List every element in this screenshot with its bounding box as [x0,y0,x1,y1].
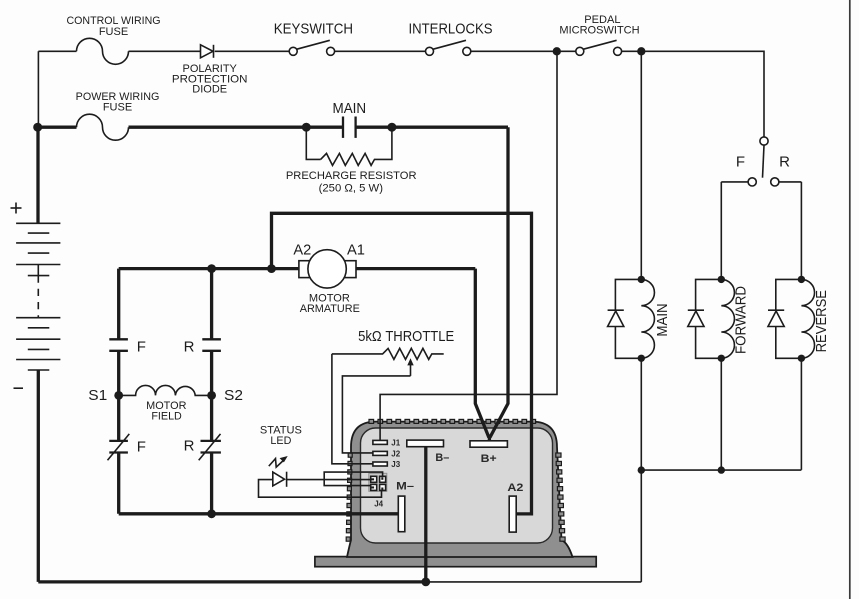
wire MAIN coil bottom drop [640,358,642,470]
diode D3 FORWARD coil suppression [688,279,722,358]
wire REVERSE coil drops [800,182,802,470]
label B+ terminal [481,453,497,465]
label A2 terminal [507,482,523,494]
controller terminal B+ bar [470,441,507,447]
junction REVERSE coil bottom node [798,355,805,362]
label B- terminal [435,452,449,464]
svg-text:F: F [736,153,745,170]
wire armature A2 loop to controller A2 [272,213,532,514]
label REVERSE coil rotated [813,290,830,352]
coil K2 FORWARD contactor coil [721,279,734,358]
label A1 armature [347,241,365,258]
controller U1 heatsink left fins [346,453,352,541]
controller U1 heatsink right fins [556,453,565,541]
svg-text:A2: A2 [507,482,523,494]
motor armature M1 terminals A2 A1 [299,261,356,278]
wire B- terminal drop [424,447,427,582]
label POLARITY PROTECTION DIODE [172,63,248,96]
label POWER WIRING FUSE [76,91,160,113]
contact K4 F forward field (normally closed, slash) [108,434,130,460]
label J2 [391,449,400,458]
svg-text:FUSE: FUSE [99,26,128,38]
label MAIN contactor [333,100,367,117]
selector switch S6 F contact [748,178,756,186]
wire coil bottom link [641,469,801,471]
wire armature row right A1 [356,267,475,270]
wire field bottom to M- terminal [119,512,399,515]
label STATUS LED [260,425,302,448]
wire LED cathode to J4 pin1 [287,479,371,481]
wire control top run fuse to diode [129,50,201,52]
wire LED anode loop to J4 pin4 [259,480,382,498]
svg-text:LED: LED [270,435,291,447]
wire power MAIN contact to B+ drop [356,126,508,129]
junction MAIN coil bottom node [638,355,645,362]
wire keyswitch to interlocks [335,50,426,52]
svg-text:S1: S1 [88,387,107,404]
svg-text:MICROSWITCH: MICROSWITCH [559,25,639,37]
wire armature row left [119,267,299,270]
svg-text:MAIN: MAIN [654,303,671,336]
junction FORWARD coil top node [718,276,725,283]
inductor L1 motor field [119,385,212,395]
svg-text:S2: S2 [224,387,243,404]
diode D2 MAIN coil suppression [608,279,642,358]
wire control diode to keyswitch [215,50,289,52]
label FORWARD coil rotated [732,286,749,354]
junction FORWARD coil bottom node [718,355,725,362]
resistor R1 precharge 250 ohm [321,153,378,165]
contact K1 MAIN contactor [343,117,356,138]
label F contact top [137,339,146,356]
junction armature row S2 node [207,264,216,273]
svg-text:R: R [779,153,790,170]
label M- terminal [396,481,414,493]
wire throttle high end to J3 [332,354,373,464]
label PEDAL MICROSWITCH [559,14,639,36]
wire FORWARD coil drops [720,182,722,470]
label A2 armature [293,241,311,258]
wire R contact to REVERSE [779,181,802,183]
wire throttle wiper to J2 [342,376,410,453]
LED D5 status [273,472,287,487]
junction node S2 [207,391,216,400]
junction battery+ node [33,123,42,132]
label J1 [391,439,400,448]
label MAIN coil rotated [654,303,671,336]
svg-text:REVERSE: REVERSE [813,290,830,352]
wire battery positive stub [36,127,39,223]
label F contact bottom [137,439,146,456]
svg-text:INTERLOCKS: INTERLOCKS [409,20,493,37]
junction coil return node MAIN [638,466,645,473]
battery BT1 internal stub and dashed middle [37,265,39,318]
label J4 [374,500,383,509]
wire pedal microswitch to F/R selector [622,51,764,137]
contact K3 R reverse field (normally open) [202,339,221,351]
controller U1 heatsink body [347,422,573,557]
svg-text:J3: J3 [391,460,400,469]
wire control feed left vertical [38,51,76,127]
svg-text:(250 Ω, 5 W): (250 Ω, 5 W) [319,182,383,194]
svg-text:M–: M– [396,481,414,493]
selector switch S6 forward/reverse common [760,137,768,178]
junction field bottom node [207,509,216,518]
label F selector [736,153,745,170]
label S2 [224,387,243,404]
svg-text:DIODE: DIODE [192,84,227,96]
label 5k THROTTLE [358,328,454,345]
label PRECHARGE RESISTOR value [286,170,417,194]
wire power fuse to MAIN contact [129,126,344,129]
svg-text:J2: J2 [391,449,400,458]
junction REVERSE coil top node [798,276,805,283]
junction MAIN coil top node [638,276,645,283]
controller U1 face panel [361,428,553,543]
diode D4 REVERSE coil suppression [768,279,801,358]
switch S3 keyswitch [289,40,334,55]
svg-text:B–: B– [435,452,449,464]
junction keyswitch KSI node [553,47,561,55]
wire F contact to FORWARD [721,181,748,183]
label R contact bottom [184,438,195,455]
svg-text:R: R [184,438,195,455]
controller pin J1 [373,440,387,444]
svg-text:J4: J4 [374,500,383,509]
svg-text:PRECHARGE RESISTOR: PRECHARGE RESISTOR [286,170,417,182]
battery minus sign [14,387,24,389]
selector switch S6 R contact [771,178,779,186]
potentiometer R2 5k throttle [332,348,444,376]
svg-text:MAIN: MAIN [333,100,367,117]
svg-text:F: F [137,439,146,456]
controller terminal A2 bar [509,496,516,532]
svg-text:FORWARD: FORWARD [732,286,749,354]
wire node KSI drop to J1 [380,51,557,440]
svg-text:ARMATURE: ARMATURE [300,303,360,315]
contact K2 F forward field (normally open) [109,339,128,351]
wire coil return riser [640,470,642,582]
wire J4 pin2 to pin3 jumper [324,472,382,486]
wire battery negative to bottom rail [37,370,40,582]
label MOTOR ARMATURE [300,293,360,316]
LED D5 flash arrow [269,456,288,467]
wire B+ drop with V into B+ terminal [475,127,508,441]
controller pin J3 [373,462,387,466]
controller terminal M- bar [398,496,405,532]
svg-text:FIELD: FIELD [151,410,182,422]
battery plus sign [11,203,22,214]
wire precharge branch [306,129,392,160]
wire interlocks to pedal microswitch node [471,50,576,52]
contact K5 R reverse field (normally closed, slash) [199,434,221,460]
coil K1 MAIN contactor coil [641,279,654,358]
svg-text:B+: B+ [481,453,497,465]
label CONTROL WIRING FUSE [67,15,161,38]
svg-text:5kΩ THROTTLE: 5kΩ THROTTLE [358,328,454,345]
controller connector J4 housing [369,473,387,491]
junction MAIN contact left node [302,123,311,132]
junction coil return node FORWARD [718,466,725,473]
junction armature row A2 node [267,264,276,273]
wire power battery+ to fuse [38,126,77,129]
motor armature M1 circle [308,250,346,288]
svg-text:KEYSWITCH: KEYSWITCH [274,20,353,37]
page border right [849,0,851,599]
coil K3 REVERSE contactor coil [801,279,814,358]
label J3 [391,460,400,469]
junction node S1 [114,391,123,400]
svg-text:A1: A1 [347,241,365,258]
svg-text:F: F [137,339,146,356]
switch S4 interlocks [426,40,471,55]
label INTERLOCKS [409,20,493,37]
svg-text:R: R [184,339,195,356]
fuse F1 control wiring [77,38,129,64]
label MOTOR FIELD [146,400,186,423]
controller U1 mounting base [315,557,596,567]
svg-text:FUSE: FUSE [103,101,132,113]
label S1 [88,387,107,404]
junction MAIN contact right node [387,123,396,132]
svg-text:J1: J1 [391,439,400,448]
label KEYSWITCH [274,20,353,37]
wire MAIN coil feed drop [640,51,642,279]
junction bottom rail B- node [421,578,430,587]
controller terminal B- bar [407,440,444,447]
battery BT1 [16,223,60,370]
label R contact top [184,339,195,356]
controller pin J2 [373,451,387,455]
wire bottom rail thin B- node to coil return [426,581,642,583]
controller U1 heatsink top fins [369,419,536,423]
svg-text:A2: A2 [293,241,311,258]
switch S5 pedal microswitch [576,40,622,55]
diode D1 polarity protection [201,45,214,58]
label R selector [779,153,790,170]
wire bottom rail thick battery- to B- node [38,580,426,583]
wire field branch S1 [117,269,120,514]
fuse F2 power wiring [77,114,129,140]
wire field branch S2 [210,269,213,514]
junction coil feed node [637,47,645,55]
